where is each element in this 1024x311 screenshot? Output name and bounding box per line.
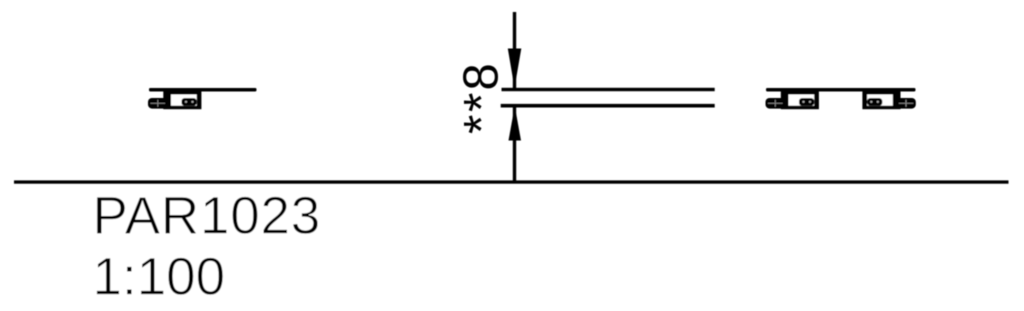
svg-text:*: *: [454, 93, 510, 112]
dimension line lower segment: [513, 106, 516, 184]
svg-text:*: *: [454, 115, 510, 134]
right element left bracket assembly: [766, 92, 819, 110]
svg-text:8: 8: [454, 63, 508, 90]
beam top edge line: [502, 88, 715, 91]
dimension arrow up: [509, 106, 522, 141]
left element bracket assembly: [148, 92, 201, 110]
right element right bracket assembly (mirrored): [862, 92, 915, 110]
ground line: [14, 180, 1009, 183]
svg-text:PAR1023: PAR1023: [93, 187, 322, 246]
left element top rail: [149, 88, 257, 92]
dimension arrow down: [508, 49, 522, 89]
beam bottom edge line: [501, 104, 715, 108]
dimension line upper segment: [513, 12, 516, 88]
right element top rail: [766, 88, 916, 92]
svg-text:1:100: 1:100: [93, 248, 226, 307]
